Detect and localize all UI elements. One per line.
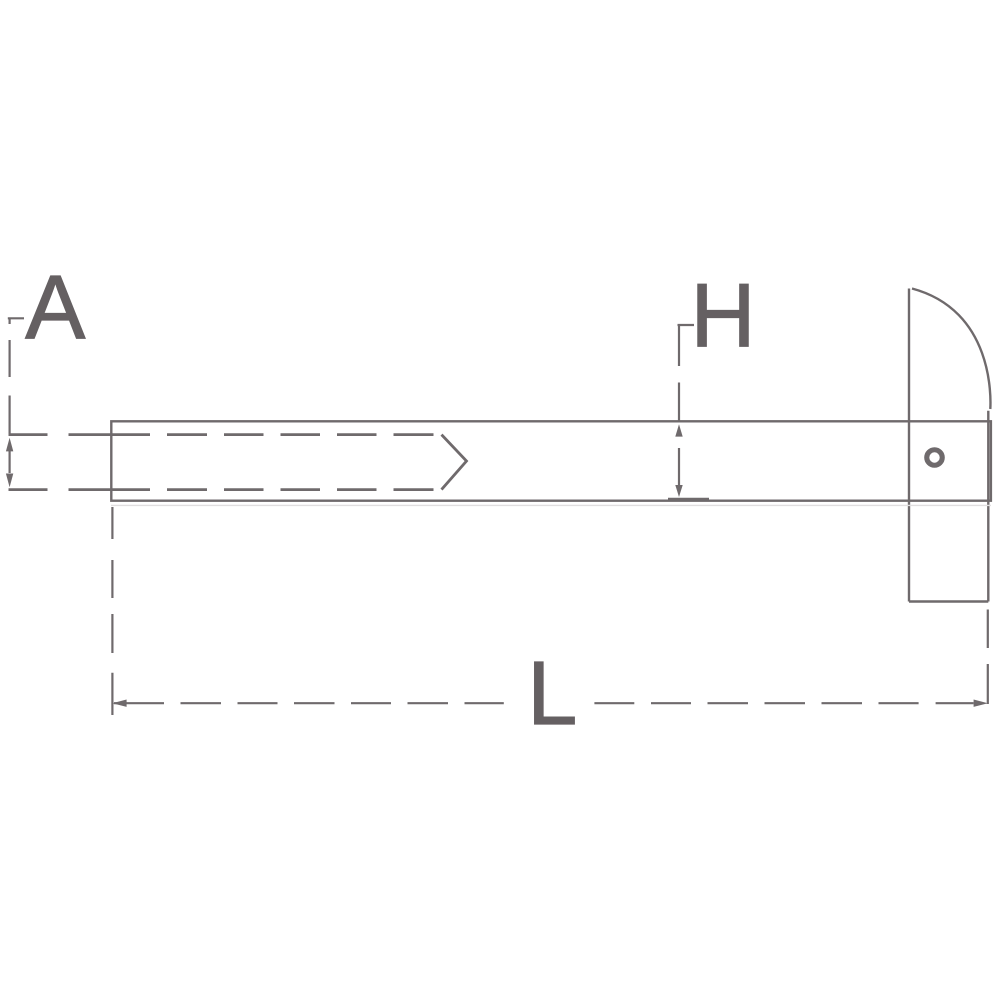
svg-text:H: H xyxy=(691,266,756,366)
svg-text:A: A xyxy=(25,258,85,358)
svg-text:L: L xyxy=(527,644,577,744)
